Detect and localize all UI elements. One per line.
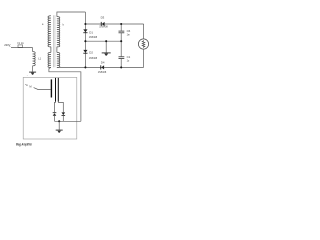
svg-text:C6: C6	[127, 29, 131, 33]
wire C6 leads	[120, 24, 122, 41]
svg-text:~: ~	[9, 45, 11, 49]
wire C1 leads	[120, 41, 122, 67]
wire D3 branch	[85, 23, 143, 25]
wire rectifier left rail	[84, 12, 86, 67]
wire lamp top	[143, 24, 145, 39]
svg-text:M: M	[29, 85, 31, 89]
wire control input	[34, 88, 51, 90]
junction mid rail / C1	[120, 40, 122, 42]
mag amplifier box	[23, 77, 77, 139]
transformer T1 core	[54, 15, 55, 67]
diode D2	[83, 50, 87, 54]
junction diodes / ground	[58, 120, 60, 122]
wire input to fuse	[11, 47, 33, 49]
diode D6	[62, 112, 66, 116]
wire L1 to ground	[32, 66, 34, 72]
ground (input)	[29, 72, 36, 75]
diode D1	[83, 29, 87, 33]
wire diode junction to feedback	[55, 120, 81, 122]
transformer T1 secondary winding upper	[57, 17, 60, 47]
inductor L1	[33, 52, 36, 66]
diode D5	[53, 112, 57, 116]
wire mid rail	[85, 40, 121, 42]
transformer T1 primary winding upper	[48, 16, 51, 47]
wire D5 bottom	[54, 116, 56, 122]
junction rail / mid rail	[84, 40, 86, 42]
ground (mid rail)	[102, 53, 111, 56]
ground (box)	[56, 130, 63, 133]
lamp LA1	[138, 39, 148, 49]
junction bottom rail / C1	[120, 66, 122, 68]
transformer T1 primary winding lower	[48, 52, 51, 67]
saturable reactor gate winding bar right	[58, 78, 59, 102]
svg-text:C1: C1	[127, 55, 131, 59]
junction mid rail / ground	[105, 40, 107, 42]
svg-text:D1: D1	[89, 30, 93, 34]
wire primary bottom to mag amp	[49, 67, 81, 121]
svg-text:1m: 1m	[127, 34, 130, 37]
diode D3	[101, 22, 105, 26]
lamp filament	[142, 40, 145, 48]
wire secondary bottom rail	[57, 66, 144, 68]
fuse F1	[18, 45, 23, 47]
wire lamp bottom	[143, 49, 145, 67]
svg-text:1N5408: 1N5408	[89, 36, 98, 39]
saturable reactor control winding bar	[51, 79, 52, 97]
wire primary inter-section	[50, 47, 52, 53]
svg-text:D4: D4	[101, 60, 105, 64]
junction top-left rail / D3	[84, 23, 86, 25]
wire secondary inter-section	[56, 47, 58, 53]
junction D3 rail / C6	[120, 23, 122, 25]
svg-text:*A: *A	[25, 83, 28, 87]
wire fuse to L1	[32, 48, 34, 52]
wire D6 bottom	[62, 116, 64, 121]
svg-text:Mag Amplifier: Mag Amplifier	[16, 143, 32, 147]
svg-text:F1 1A: F1 1A	[18, 42, 25, 45]
svg-text:1N5408: 1N5408	[89, 57, 98, 60]
junction rail / bottom rail	[84, 66, 86, 68]
saturable reactor gate winding bar left	[55, 78, 56, 102]
wire gate left to diode D5	[55, 102, 56, 113]
wire gate right to diode D6	[58, 102, 63, 113]
capacitor C6	[119, 31, 125, 33]
wire ground stub	[105, 41, 107, 52]
svg-text:D3: D3	[101, 16, 105, 20]
diode D4	[100, 65, 104, 69]
svg-text:1N5408: 1N5408	[98, 71, 107, 74]
wire secondary top stub	[57, 12, 86, 17]
capacitor C1	[119, 57, 125, 59]
svg-text:D2: D2	[89, 51, 93, 55]
svg-text:1N5408: 1N5408	[99, 26, 108, 29]
transformer T1 secondary winding lower	[57, 52, 60, 67]
wire ground stub (box)	[58, 121, 60, 129]
